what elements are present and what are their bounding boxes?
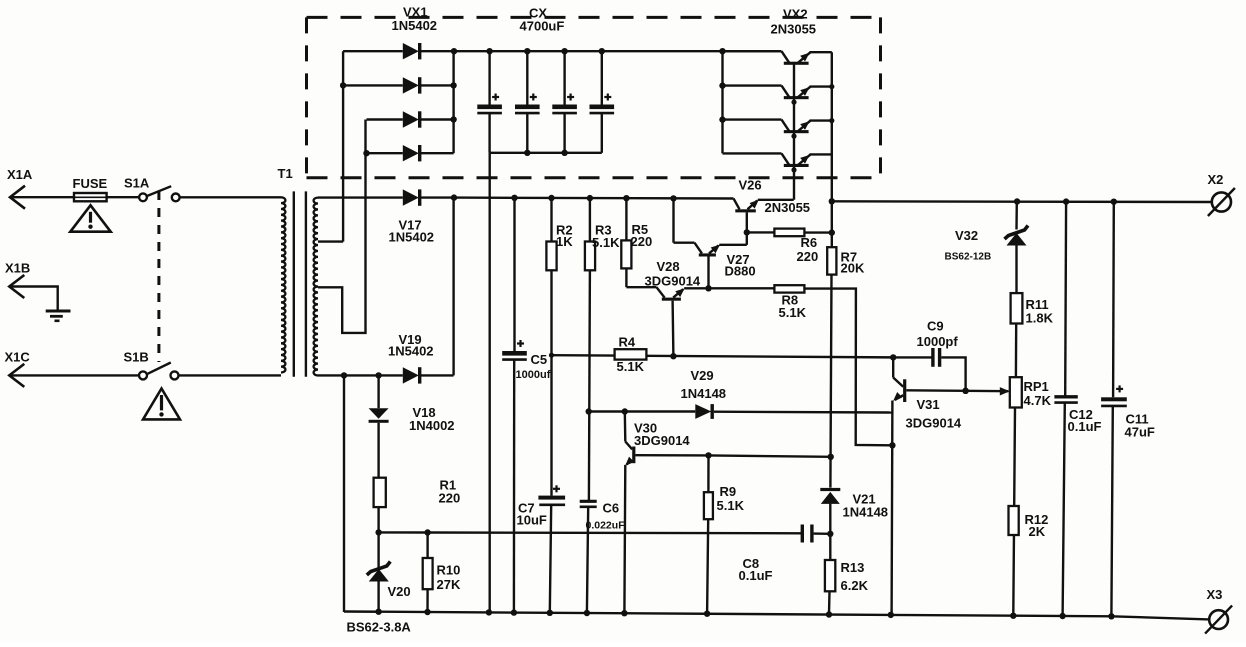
svg-text:1N5402: 1N5402 — [388, 344, 434, 359]
svg-text:3DG9014: 3DG9014 — [634, 433, 690, 448]
svg-text:220: 220 — [631, 234, 653, 249]
svg-text:3DG9014: 3DG9014 — [645, 274, 701, 289]
svg-text:VX2: VX2 — [783, 6, 808, 21]
svg-text:FUSE: FUSE — [73, 176, 108, 191]
svg-text:X1C: X1C — [5, 350, 31, 365]
svg-text:V20: V20 — [388, 584, 411, 599]
svg-text:C9: C9 — [927, 319, 944, 334]
svg-text:T1: T1 — [278, 166, 293, 181]
svg-text:R6: R6 — [801, 235, 818, 250]
svg-text:C6: C6 — [603, 501, 620, 516]
svg-text:0.1uF: 0.1uF — [1068, 419, 1102, 434]
svg-text:X1A: X1A — [7, 167, 33, 182]
svg-text:220: 220 — [797, 249, 819, 264]
svg-text:R13: R13 — [841, 560, 865, 575]
svg-text:S1B: S1B — [124, 350, 149, 365]
svg-text:4700uF: 4700uF — [520, 19, 565, 34]
svg-text:1N4148: 1N4148 — [681, 386, 727, 401]
svg-text:D880: D880 — [725, 264, 756, 279]
svg-text:X1B: X1B — [5, 261, 30, 276]
svg-text:1N4148: 1N4148 — [843, 504, 889, 519]
svg-text:2N3055: 2N3055 — [771, 22, 817, 37]
svg-text:1000uf: 1000uf — [516, 369, 551, 381]
svg-text:1.8K: 1.8K — [1026, 311, 1054, 326]
svg-text:47uF: 47uF — [1125, 425, 1155, 440]
svg-text:V31: V31 — [917, 397, 940, 412]
svg-text:0.022uF: 0.022uF — [586, 520, 626, 532]
svg-text:5.1K: 5.1K — [779, 305, 807, 320]
svg-text:1000pf: 1000pf — [917, 334, 959, 349]
svg-text:2K: 2K — [1029, 524, 1046, 539]
svg-text:1N5402: 1N5402 — [389, 229, 435, 244]
svg-text:RP1: RP1 — [1024, 379, 1049, 394]
svg-text:R4: R4 — [619, 335, 636, 350]
svg-text:27K: 27K — [437, 577, 461, 592]
svg-text:10uF: 10uF — [517, 513, 547, 528]
svg-text:R9: R9 — [720, 484, 737, 499]
svg-text:5.1K: 5.1K — [592, 235, 620, 250]
svg-text:BS62-12B: BS62-12B — [945, 252, 992, 263]
svg-text:4.7K: 4.7K — [1024, 393, 1052, 408]
svg-text:C5: C5 — [531, 352, 548, 367]
svg-text:V32: V32 — [955, 228, 978, 243]
svg-text:V29: V29 — [691, 368, 714, 383]
svg-text:220: 220 — [439, 491, 461, 506]
svg-text:20K: 20K — [841, 260, 865, 275]
svg-text:6.2K: 6.2K — [841, 578, 869, 593]
svg-text:1N5402: 1N5402 — [392, 18, 438, 33]
svg-text:X3: X3 — [1207, 587, 1223, 602]
svg-text:3DG9014: 3DG9014 — [906, 416, 962, 431]
svg-text:5.1K: 5.1K — [617, 359, 645, 374]
svg-text:5.1K: 5.1K — [717, 498, 745, 513]
svg-text:0.1uF: 0.1uF — [739, 568, 773, 583]
svg-text:S1A: S1A — [124, 176, 150, 191]
svg-text:X2: X2 — [1208, 172, 1224, 187]
svg-text:BS62-3.8A: BS62-3.8A — [347, 620, 412, 635]
svg-text:V26: V26 — [739, 178, 762, 193]
svg-text:2N3055: 2N3055 — [765, 200, 811, 215]
svg-text:1N4002: 1N4002 — [409, 418, 455, 433]
svg-text:1K: 1K — [556, 234, 573, 249]
svg-text:R10: R10 — [437, 563, 461, 578]
svg-text:V28: V28 — [657, 259, 680, 274]
